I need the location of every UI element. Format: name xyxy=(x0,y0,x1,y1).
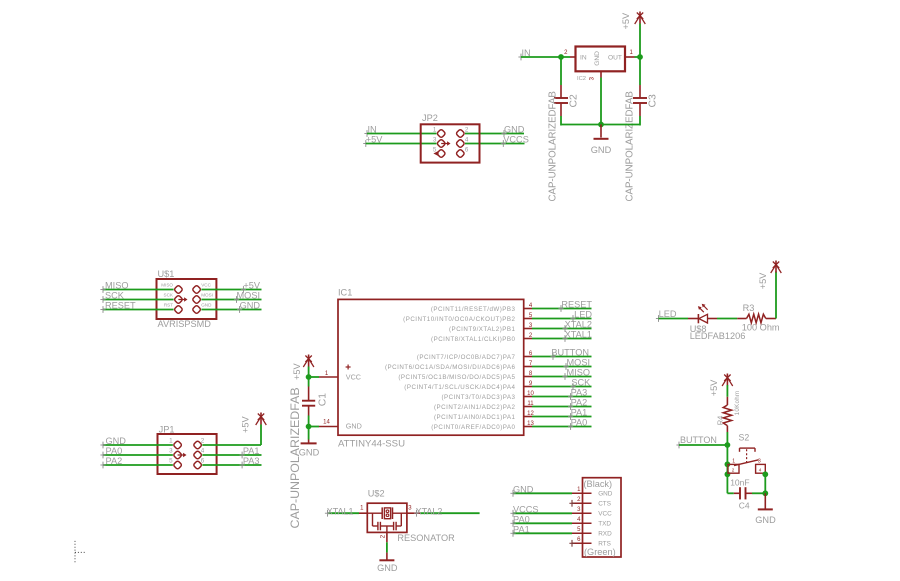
svg-text:GND: GND xyxy=(598,491,613,498)
svg-text:BUTTON: BUTTON xyxy=(680,435,717,445)
svg-text:SCK: SCK xyxy=(105,291,125,301)
svg-text:3: 3 xyxy=(169,448,173,455)
svg-text:CAP-UNPOLARIZEDFAB: CAP-UNPOLARIZEDFAB xyxy=(625,91,636,201)
svg-text:+5V: +5V xyxy=(621,12,631,29)
svg-text:GND: GND xyxy=(346,422,362,431)
svg-text:LEDFAB1206: LEDFAB1206 xyxy=(690,331,746,341)
svg-text:GND: GND xyxy=(201,302,212,307)
svg-text:SCK: SCK xyxy=(164,292,174,297)
svg-text:TXD: TXD xyxy=(598,521,611,528)
svg-text:6: 6 xyxy=(201,458,205,465)
svg-text:U$2: U$2 xyxy=(368,489,385,499)
svg-text:+5V: +5V xyxy=(243,281,260,291)
svg-text:3: 3 xyxy=(408,505,412,511)
svg-text:4: 4 xyxy=(759,468,762,473)
svg-text:C2: C2 xyxy=(569,94,580,108)
svg-text:5: 5 xyxy=(577,527,581,533)
svg-text:6: 6 xyxy=(465,146,469,153)
svg-text:1: 1 xyxy=(433,126,437,133)
svg-text:JP1: JP1 xyxy=(159,424,175,434)
svg-text:4: 4 xyxy=(465,136,469,143)
svg-text:GND: GND xyxy=(755,515,776,525)
svg-text:3: 3 xyxy=(433,136,437,143)
svg-text:4: 4 xyxy=(201,448,205,455)
svg-text:(Black): (Black) xyxy=(584,479,613,489)
svg-text:C4: C4 xyxy=(739,501,750,511)
svg-text:CTS: CTS xyxy=(598,501,611,508)
svg-text:IC2: IC2 xyxy=(577,76,586,82)
svg-text:JP2: JP2 xyxy=(422,113,438,123)
svg-text:VCCS: VCCS xyxy=(513,504,539,514)
svg-text:GND: GND xyxy=(299,447,320,457)
svg-text:GND: GND xyxy=(504,125,525,135)
svg-text:(PCINT3/T0/ADC3)PA3: (PCINT3/T0/ADC3)PA3 xyxy=(441,394,515,401)
svg-text:XTAL1: XTAL1 xyxy=(327,506,354,516)
svg-text:MOSI: MOSI xyxy=(567,358,590,368)
svg-text:PA2: PA2 xyxy=(106,456,123,466)
svg-text:100 Ohm: 100 Ohm xyxy=(742,322,780,332)
svg-text:XTAL2: XTAL2 xyxy=(565,320,592,330)
svg-text:OUT: OUT xyxy=(608,55,622,62)
svg-text:(PCINT11/RESET/dW)PB3: (PCINT11/RESET/dW)PB3 xyxy=(431,306,516,313)
svg-text:(PCINT1/AIN0/ADC1)PA1: (PCINT1/AIN0/ADC1)PA1 xyxy=(434,414,516,421)
svg-text:PA1: PA1 xyxy=(513,524,530,534)
svg-text:XTAL2: XTAL2 xyxy=(416,506,443,516)
svg-text:(PCINT4/T1/SCL/USCK/ADC4)PA4: (PCINT4/T1/SCL/USCK/ADC4)PA4 xyxy=(404,384,515,391)
svg-text:(PCINT6/OC1A/SDA/MOSI/DI/ADC6): (PCINT6/OC1A/SDA/MOSI/DI/ADC6)PA6 xyxy=(385,364,516,371)
svg-text:10Kohm: 10Kohm xyxy=(734,391,741,416)
svg-text:MISO: MISO xyxy=(567,368,590,378)
svg-text:VCC: VCC xyxy=(201,282,211,287)
svg-text:2: 2 xyxy=(577,497,581,503)
svg-text:VCCS: VCCS xyxy=(503,135,529,145)
svg-text:CAP-UNPOLARIZEDFAB: CAP-UNPOLARIZEDFAB xyxy=(288,387,302,528)
svg-text:2: 2 xyxy=(564,50,568,56)
svg-text:MISO: MISO xyxy=(105,281,128,291)
svg-text:PA3: PA3 xyxy=(243,456,260,466)
svg-text:10nF: 10nF xyxy=(730,477,749,487)
svg-text:6: 6 xyxy=(577,537,581,543)
svg-text:GND: GND xyxy=(240,301,261,311)
svg-text:CAP-UNPOLARIZEDFAB: CAP-UNPOLARIZEDFAB xyxy=(548,91,559,201)
svg-text:3: 3 xyxy=(590,76,596,80)
svg-text:1: 1 xyxy=(169,438,173,445)
svg-text:+5V: +5V xyxy=(292,363,302,380)
svg-text:RESET: RESET xyxy=(105,301,136,311)
svg-text:11: 11 xyxy=(527,401,534,407)
svg-text:(PCINT5/OC1B/MISO/DO/ADC5)PA5: (PCINT5/OC1B/MISO/DO/ADC5)PA5 xyxy=(398,374,515,381)
svg-text:(PCINT10/INT0/OC0A/CKOUT)PB2: (PCINT10/INT0/OC0A/CKOUT)PB2 xyxy=(403,316,515,323)
svg-text:LED: LED xyxy=(574,310,592,320)
svg-text:2: 2 xyxy=(465,126,469,133)
svg-text:5: 5 xyxy=(169,458,173,465)
svg-text:XTAL1: XTAL1 xyxy=(565,330,592,340)
svg-text:VCC: VCC xyxy=(598,511,612,518)
svg-text:IC1: IC1 xyxy=(338,288,352,298)
svg-text:PA0: PA0 xyxy=(106,446,123,456)
svg-text:(PCINT2/AIN1/ADC2)PA2: (PCINT2/AIN1/ADC2)PA2 xyxy=(434,404,516,411)
svg-text:3: 3 xyxy=(758,459,761,465)
svg-text:RESET: RESET xyxy=(561,300,592,310)
svg-text:U$1: U$1 xyxy=(158,269,175,279)
svg-text:ATTINY44-SSU: ATTINY44-SSU xyxy=(338,438,405,449)
svg-text:PA0: PA0 xyxy=(513,514,530,524)
svg-text:MISO: MISO xyxy=(161,282,173,287)
svg-text:PA1: PA1 xyxy=(243,446,260,456)
svg-text:1: 1 xyxy=(630,50,634,56)
svg-text:(PCINT0/AREF/ADC0)PA0: (PCINT0/AREF/ADC0)PA0 xyxy=(431,424,515,431)
svg-text:+5V: +5V xyxy=(709,379,719,396)
svg-text:S2: S2 xyxy=(739,432,750,442)
svg-text:C3: C3 xyxy=(648,94,659,108)
svg-text:GND: GND xyxy=(106,436,127,446)
svg-text:3: 3 xyxy=(577,507,581,513)
svg-text:MOSI: MOSI xyxy=(201,292,213,297)
svg-text:13: 13 xyxy=(527,421,534,427)
svg-text:R4: R4 xyxy=(716,416,725,426)
svg-text:1: 1 xyxy=(577,487,581,493)
svg-text:C1: C1 xyxy=(318,393,329,407)
svg-text:GND: GND xyxy=(594,51,601,66)
svg-text:RTS: RTS xyxy=(598,541,611,548)
svg-text:AVRISPSMD: AVRISPSMD xyxy=(158,319,212,329)
svg-text:+5V: +5V xyxy=(241,416,251,433)
svg-text:(PCINT7/ICP/OC0B/ADC7)PA7: (PCINT7/ICP/OC0B/ADC7)PA7 xyxy=(417,354,516,361)
svg-text:R3: R3 xyxy=(743,303,755,313)
svg-text:GND: GND xyxy=(377,563,398,573)
svg-text:(PCINT9/XTAL2)PB1: (PCINT9/XTAL2)PB1 xyxy=(449,326,516,333)
svg-text:RXD: RXD xyxy=(598,531,612,538)
svg-text:MOSI: MOSI xyxy=(237,291,260,301)
svg-text:4: 4 xyxy=(577,517,581,523)
svg-text:2: 2 xyxy=(201,438,205,445)
svg-text:(PCINT8/XTAL1/CLKI)PB0: (PCINT8/XTAL1/CLKI)PB0 xyxy=(431,336,516,343)
svg-text:10: 10 xyxy=(527,391,534,397)
svg-text:14: 14 xyxy=(323,419,330,425)
svg-text:12: 12 xyxy=(527,411,534,417)
svg-text:2: 2 xyxy=(732,468,735,473)
svg-text:RST: RST xyxy=(164,302,173,307)
svg-text:RESONATOR: RESONATOR xyxy=(397,533,455,543)
svg-text:BUTTON: BUTTON xyxy=(551,348,589,358)
svg-text:1: 1 xyxy=(732,459,735,465)
svg-text:+5V: +5V xyxy=(758,272,768,289)
svg-text:1: 1 xyxy=(360,505,364,511)
svg-text:2: 2 xyxy=(380,534,386,538)
svg-text:IN: IN xyxy=(580,55,587,62)
svg-text:GND: GND xyxy=(513,484,534,494)
svg-text:VCC: VCC xyxy=(346,372,361,381)
svg-text:GND: GND xyxy=(591,145,612,155)
svg-text:(Green): (Green) xyxy=(584,547,616,557)
